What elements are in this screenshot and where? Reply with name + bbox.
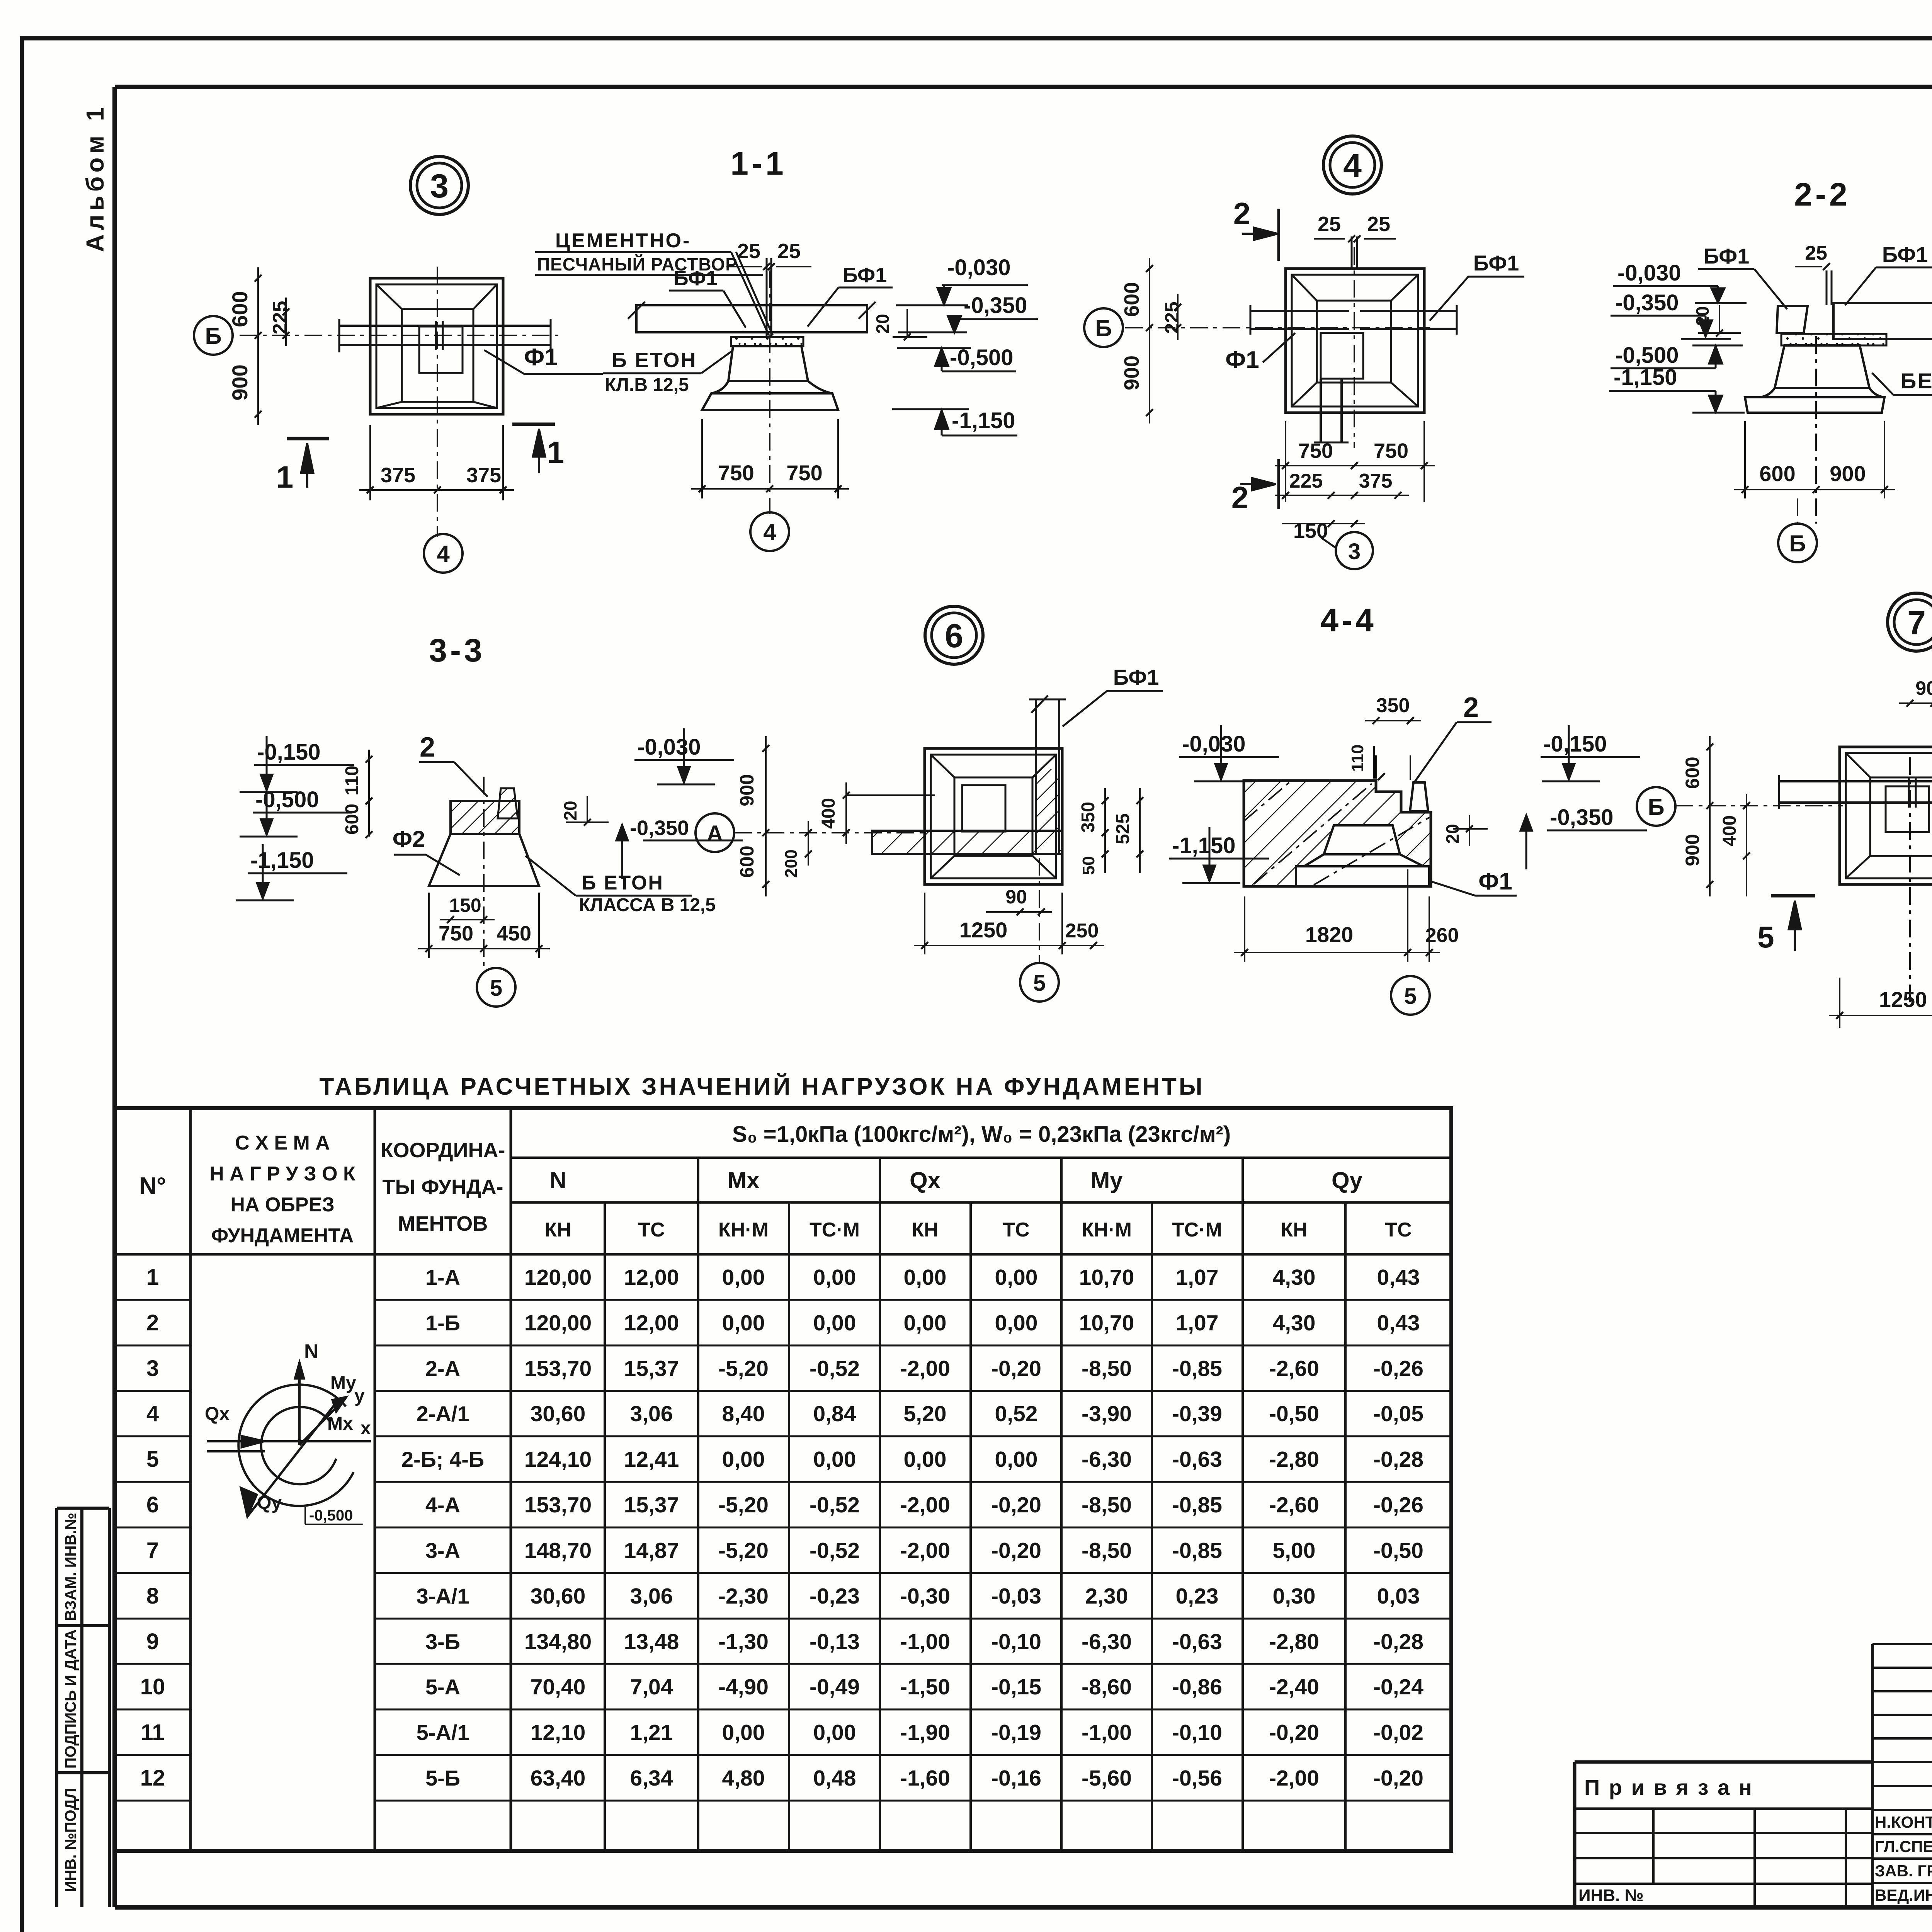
node 7 centerlines	[1675, 805, 1843, 806]
svg-text:0,00: 0,00	[722, 1720, 765, 1745]
svg-text:5,20: 5,20	[904, 1401, 947, 1426]
title block signature grid	[1871, 1644, 1874, 1907]
svg-text:БФ1: БФ1	[1473, 251, 1519, 275]
svg-text:20: 20	[1442, 824, 1463, 844]
svg-text:-5,20: -5,20	[718, 1538, 769, 1563]
svg-text:8,40: 8,40	[722, 1401, 765, 1426]
svg-text:-1,150: -1,150	[250, 848, 314, 873]
node 6 column strip BF1	[1035, 699, 1037, 855]
svg-text:0,43: 0,43	[1377, 1265, 1420, 1290]
svg-text:Ф1: Ф1	[1478, 868, 1512, 895]
svg-text:Б: Б	[205, 323, 221, 349]
node 4 left dims	[1149, 258, 1150, 423]
svg-text:ТС: ТС	[1385, 1219, 1412, 1241]
node 6 left dims	[765, 736, 767, 896]
section 2-2 bottom dim 600 900	[1744, 421, 1746, 498]
svg-text:ТС: ТС	[638, 1219, 665, 1241]
svg-text:600: 600	[1682, 757, 1703, 789]
section 3-3 dims 110 600	[368, 750, 370, 837]
svg-text:-8,50: -8,50	[1082, 1538, 1132, 1563]
section 1-1 mortar strip	[731, 337, 803, 346]
node 4 gap lines 25 25	[1351, 236, 1353, 269]
svg-text:-0,03: -0,03	[991, 1584, 1041, 1609]
svg-text:С Х Е М А: С Х Е М А	[235, 1132, 330, 1154]
svg-text:4: 4	[437, 541, 450, 567]
svg-text:-1,90: -1,90	[900, 1720, 950, 1745]
svg-text:5,00: 5,00	[1273, 1538, 1316, 1563]
svg-text:153,70: 153,70	[524, 1493, 592, 1517]
svg-text:225: 225	[1289, 470, 1323, 492]
svg-text:-0,10: -0,10	[991, 1629, 1041, 1654]
node 4 column socket	[1321, 333, 1363, 379]
svg-text:4: 4	[763, 519, 776, 545]
svg-text:КЛ.В 12,5: КЛ.В 12,5	[605, 375, 689, 395]
svg-text:-5,20: -5,20	[718, 1356, 769, 1381]
section 4-4 dim 350	[1375, 755, 1377, 779]
svg-text:-0,39: -0,39	[1172, 1401, 1222, 1426]
svg-text:-0,350: -0,350	[630, 816, 689, 840]
svg-text:-0,350: -0,350	[1615, 290, 1679, 315]
svg-text:10,70: 10,70	[1079, 1265, 1134, 1290]
node 3 column socket	[419, 327, 463, 373]
svg-text:-0,26: -0,26	[1373, 1493, 1423, 1517]
svg-text:-0,50: -0,50	[1373, 1538, 1423, 1563]
svg-text:0,00: 0,00	[995, 1447, 1038, 1472]
svg-text:2: 2	[1233, 196, 1251, 231]
svg-text:1: 1	[547, 435, 565, 469]
svg-text:Mу: Mу	[1090, 1167, 1123, 1193]
svg-text:15,37: 15,37	[624, 1356, 679, 1381]
svg-text:250: 250	[1065, 920, 1099, 942]
svg-text:N°: N°	[139, 1173, 166, 1199]
section 2-2 axis circle B	[1778, 524, 1817, 562]
svg-text:2,30: 2,30	[1085, 1584, 1128, 1609]
node 4 bottom dims	[1275, 465, 1435, 466]
svg-text:1250: 1250	[1879, 987, 1927, 1012]
node 4 centerlines	[1125, 327, 1430, 328]
svg-text:4: 4	[146, 1401, 159, 1426]
svg-text:4,80: 4,80	[722, 1766, 765, 1791]
svg-text:30,60: 30,60	[531, 1584, 586, 1609]
svg-text:-0,030: -0,030	[637, 735, 701, 760]
svg-text:3-А: 3-А	[425, 1538, 460, 1563]
svg-text:1: 1	[146, 1265, 159, 1290]
svg-text:400: 400	[818, 798, 839, 829]
svg-text:Н А Г Р У З О К: Н А Г Р У З О К	[209, 1163, 355, 1185]
svg-text:х: х	[361, 1418, 371, 1439]
svg-text:-2,00: -2,00	[900, 1538, 950, 1563]
svg-text:25: 25	[1805, 242, 1827, 264]
svg-text:63,40: 63,40	[531, 1766, 586, 1791]
svg-text:S₀ =1,0кПа (100кгс/м²), W₀ = 0: S₀ =1,0кПа (100кгс/м²), W₀ = 0,23кПа (23…	[732, 1122, 1231, 1147]
svg-text:ТС: ТС	[1003, 1219, 1029, 1241]
svg-text:7: 7	[1907, 604, 1926, 641]
node 3 axis circle B	[194, 316, 233, 355]
node 7 socket	[1886, 786, 1929, 832]
svg-text:-1,30: -1,30	[718, 1629, 769, 1654]
svg-text:-0,85: -0,85	[1172, 1538, 1222, 1563]
svg-text:3: 3	[430, 168, 449, 205]
svg-text:ЗАВ. ГР.: ЗАВ. ГР.	[1875, 1862, 1932, 1880]
section 2-2 centerline	[1815, 336, 1817, 524]
svg-text:6: 6	[945, 617, 963, 655]
svg-text:-2,00: -2,00	[1269, 1766, 1319, 1791]
svg-text:ТАБЛИЦА РАСЧЕТНЫХ ЗНАЧЕНИЙ НАГ: ТАБЛИЦА РАСЧЕТНЫХ ЗНАЧЕНИЙ НАГРУЗОК НА Ф…	[319, 1073, 1204, 1100]
svg-text:-0,28: -0,28	[1373, 1447, 1423, 1472]
svg-text:1820: 1820	[1305, 922, 1354, 947]
node 7 axis circle B	[1637, 787, 1675, 826]
node 6 plan square	[925, 748, 1062, 884]
section 4-4 embedded foundation white	[1296, 825, 1429, 886]
svg-text:-0,20: -0,20	[991, 1356, 1041, 1381]
svg-text:КН·М: КН·М	[1082, 1219, 1132, 1241]
svg-text:0,00: 0,00	[995, 1311, 1038, 1335]
node 6 socket	[962, 785, 1005, 832]
svg-text:ФУНДАМЕНТА: ФУНДАМЕНТА	[211, 1225, 354, 1247]
svg-text:-3,90: -3,90	[1082, 1401, 1132, 1426]
node 3 title circle	[410, 156, 468, 214]
node 4 beam strip	[1250, 310, 1349, 312]
svg-text:-0,500: -0,500	[309, 1507, 353, 1524]
svg-text:110: 110	[342, 765, 362, 795]
svg-text:120,00: 120,00	[524, 1265, 592, 1290]
svg-text:0,00: 0,00	[813, 1311, 856, 1335]
node 7 title circle	[1888, 593, 1932, 651]
svg-text:ИНВ. №: ИНВ. №	[1578, 1886, 1644, 1905]
svg-text:-1,00: -1,00	[1082, 1720, 1132, 1745]
svg-text:900: 900	[1120, 355, 1143, 390]
svg-text:5: 5	[490, 976, 502, 1001]
svg-text:-0,52: -0,52	[810, 1538, 860, 1563]
svg-text:0,03: 0,03	[1377, 1584, 1420, 1609]
svg-text:-0,23: -0,23	[810, 1584, 860, 1609]
svg-text:ВЕД.ИНЖ: ВЕД.ИНЖ	[1875, 1886, 1932, 1904]
svg-text:КН: КН	[1281, 1219, 1307, 1241]
svg-text:1: 1	[276, 460, 294, 494]
svg-text:-2,60: -2,60	[1269, 1493, 1319, 1517]
svg-text:-0,56: -0,56	[1172, 1766, 1222, 1791]
svg-text:350: 350	[1376, 694, 1410, 717]
svg-text:153,70: 153,70	[524, 1356, 592, 1381]
svg-text:750: 750	[439, 922, 473, 945]
svg-text:1,07: 1,07	[1176, 1265, 1219, 1290]
svg-text:25: 25	[1367, 213, 1390, 236]
node 3 section mark 1 right	[512, 423, 555, 426]
svg-text:-0,20: -0,20	[991, 1493, 1041, 1517]
svg-text:N: N	[304, 1340, 319, 1363]
section 4-4 monolith block	[1244, 781, 1431, 886]
svg-text:2-Б; 4-Б: 2-Б; 4-Б	[401, 1447, 484, 1471]
svg-text:1,07: 1,07	[1176, 1311, 1219, 1335]
svg-text:0,30: 0,30	[1273, 1584, 1316, 1609]
table header horizontal lines	[511, 1156, 1451, 1159]
svg-text:0,00: 0,00	[813, 1447, 856, 1472]
svg-text:12,00: 12,00	[624, 1265, 679, 1290]
table outer border	[115, 1108, 1451, 1851]
svg-text:-4,90: -4,90	[718, 1675, 769, 1699]
svg-text:ТС·М: ТС·М	[1172, 1219, 1222, 1241]
svg-text:-0,63: -0,63	[1172, 1629, 1222, 1654]
node 7 bottom dim 1250 250	[1839, 978, 1840, 1028]
node 7 section mark 5 left	[1771, 894, 1815, 898]
svg-text:Qу: Qу	[1332, 1167, 1363, 1193]
svg-text:-0,15: -0,15	[991, 1675, 1041, 1699]
svg-text:3: 3	[1348, 539, 1361, 564]
svg-text:-0,24: -0,24	[1373, 1675, 1423, 1699]
svg-text:2-А/1: 2-А/1	[417, 1401, 469, 1426]
svg-text:-0,30: -0,30	[900, 1584, 950, 1609]
svg-text:-1,50: -1,50	[900, 1675, 950, 1699]
svg-text:4-4: 4-4	[1320, 602, 1376, 638]
svg-text:-0,50: -0,50	[1269, 1401, 1319, 1426]
svg-text:2: 2	[420, 732, 435, 763]
svg-text:А: А	[707, 821, 723, 846]
node 7 left dims	[1709, 736, 1711, 896]
svg-text:750: 750	[786, 461, 822, 485]
svg-text:400: 400	[1719, 815, 1740, 846]
svg-text:КОПИРОВАЛ ЗАВЬЯЛОВА: КОПИРОВАЛ ЗАВЬЯЛОВА	[1871, 1930, 1932, 1932]
svg-text:КН·М: КН·М	[718, 1219, 769, 1241]
svg-text:-8,60: -8,60	[1082, 1675, 1132, 1699]
svg-text:Ф1: Ф1	[524, 344, 558, 371]
svg-text:50: 50	[1079, 856, 1098, 875]
svg-text:Mу: Mу	[330, 1373, 356, 1393]
svg-text:350: 350	[1078, 802, 1099, 833]
section 1-1 pedestal	[728, 346, 808, 381]
svg-text:4,30: 4,30	[1273, 1311, 1316, 1335]
svg-text:П р и в я з а н: П р и в я з а н	[1584, 1775, 1753, 1799]
svg-text:1-Б: 1-Б	[425, 1311, 460, 1335]
svg-text:600: 600	[1120, 282, 1143, 317]
svg-text:525: 525	[1113, 813, 1133, 844]
svg-text:0,84: 0,84	[813, 1401, 856, 1426]
section 1-1 beam	[636, 305, 867, 332]
svg-text:0,00: 0,00	[722, 1311, 765, 1335]
svg-text:-0,150: -0,150	[1543, 731, 1607, 757]
svg-text:1250: 1250	[959, 918, 1008, 942]
svg-text:225: 225	[269, 301, 291, 335]
section 4-4 centerline diag	[1254, 784, 1372, 884]
svg-text:НА ОБРЕЗ: НА ОБРЕЗ	[230, 1194, 334, 1216]
svg-text:Qх: Qх	[205, 1404, 230, 1424]
svg-text:-5,20: -5,20	[718, 1493, 769, 1517]
svg-text:-0,030: -0,030	[947, 255, 1010, 280]
section 3-3 cap hatched	[451, 801, 519, 834]
svg-text:-0,030: -0,030	[1617, 260, 1681, 286]
inner frame left edge	[112, 87, 117, 1907]
svg-text:600: 600	[1759, 461, 1795, 486]
svg-text:2: 2	[1231, 480, 1249, 515]
svg-text:90: 90	[1005, 886, 1027, 908]
svg-text:-0,02: -0,02	[1373, 1720, 1423, 1745]
svg-text:10,70: 10,70	[1079, 1311, 1134, 1335]
left stamp column boxes	[55, 1508, 58, 1907]
svg-text:Б ЕТОН: Б ЕТОН	[612, 349, 697, 372]
svg-text:-2,30: -2,30	[718, 1584, 769, 1609]
svg-text:12,10: 12,10	[531, 1720, 586, 1745]
svg-text:Б: Б	[1648, 794, 1664, 820]
svg-text:0,23: 0,23	[1176, 1584, 1219, 1609]
svg-text:Ф1: Ф1	[1225, 347, 1259, 373]
svg-text:0,00: 0,00	[813, 1265, 856, 1290]
svg-text:0,48: 0,48	[813, 1766, 856, 1791]
svg-text:БЕТОН КЛАССА В12,5: БЕТОН КЛАССА В12,5	[1901, 369, 1932, 393]
svg-text:-0,19: -0,19	[991, 1720, 1041, 1745]
svg-text:750: 750	[718, 461, 754, 485]
svg-text:13,48: 13,48	[624, 1629, 679, 1654]
svg-text:3-А/1: 3-А/1	[417, 1584, 469, 1608]
svg-text:120,00: 120,00	[524, 1311, 592, 1335]
svg-text:150: 150	[449, 895, 481, 916]
svg-text:6: 6	[146, 1492, 159, 1517]
svg-text:20: 20	[560, 801, 580, 820]
table column lines	[189, 1108, 192, 1851]
svg-text:-2,60: -2,60	[1269, 1356, 1319, 1381]
svg-text:-2,80: -2,80	[1269, 1629, 1319, 1654]
svg-text:3,06: 3,06	[630, 1584, 673, 1609]
section 3-3 axis circle 5	[477, 968, 515, 1007]
svg-text:900: 900	[736, 774, 758, 806]
node 7 dim 90	[1899, 702, 1932, 704]
svg-text:-0,49: -0,49	[810, 1675, 860, 1699]
section 3-3 body trapezoid F2	[429, 834, 539, 886]
svg-text:375: 375	[381, 464, 415, 487]
svg-text:4,30: 4,30	[1273, 1265, 1316, 1290]
svg-text:124,10: 124,10	[524, 1447, 592, 1472]
svg-text:ТС·М: ТС·М	[810, 1219, 860, 1241]
svg-text:-1,150: -1,150	[1614, 365, 1677, 390]
svg-text:3: 3	[146, 1356, 159, 1381]
svg-text:5-А: 5-А	[425, 1675, 460, 1699]
svg-text:200: 200	[782, 849, 801, 878]
svg-text:ТЫ ФУНДА-: ТЫ ФУНДА-	[383, 1175, 503, 1199]
svg-text:134,80: 134,80	[524, 1629, 592, 1654]
svg-text:Mх: Mх	[327, 1413, 353, 1434]
svg-text:БФ1: БФ1	[1113, 665, 1159, 689]
svg-text:Mх: Mх	[727, 1167, 759, 1193]
svg-text:900: 900	[228, 364, 252, 400]
svg-text:МЕНТОВ: МЕНТОВ	[398, 1212, 488, 1235]
svg-text:-0,10: -0,10	[1172, 1720, 1222, 1745]
node 3 axis circle 4 bottom	[424, 534, 463, 573]
node 7 beam strip	[1779, 780, 1932, 782]
node 6 axis circle A	[696, 813, 734, 852]
svg-text:12,41: 12,41	[624, 1447, 679, 1472]
svg-text:ПОДПИСЬ И ДАТА: ПОДПИСЬ И ДАТА	[62, 1629, 79, 1769]
svg-text:-0,030: -0,030	[1182, 731, 1245, 757]
svg-text:ВЗАМ. ИНВ.№: ВЗАМ. ИНВ.№	[62, 1513, 79, 1621]
svg-text:8: 8	[146, 1583, 159, 1609]
svg-text:КН: КН	[912, 1219, 938, 1241]
section 4-4 column stub	[1410, 782, 1428, 811]
svg-text:375: 375	[466, 464, 501, 487]
svg-text:2: 2	[146, 1310, 159, 1335]
svg-text:-1,60: -1,60	[900, 1766, 950, 1791]
svg-text:15,37: 15,37	[624, 1493, 679, 1517]
svg-text:0,00: 0,00	[722, 1265, 765, 1290]
svg-text:БФ1: БФ1	[1704, 244, 1749, 268]
svg-text:375: 375	[1359, 470, 1393, 492]
svg-text:-0,05: -0,05	[1373, 1401, 1423, 1426]
node 4 axis circle 3 bottom	[1336, 532, 1373, 569]
node 3 plan square F1	[370, 278, 503, 414]
svg-text:-0,85: -0,85	[1172, 1356, 1222, 1381]
svg-text:-0,16: -0,16	[991, 1766, 1041, 1791]
table load-scheme diagram	[238, 1384, 354, 1506]
svg-text:20: 20	[872, 314, 893, 333]
node 7 plan square	[1840, 747, 1932, 884]
section 2-2 mortar strip	[1781, 334, 1886, 345]
svg-text:-0,500: -0,500	[255, 787, 319, 812]
svg-text:-2,80: -2,80	[1269, 1447, 1319, 1472]
svg-text:3-Б: 3-Б	[425, 1629, 460, 1654]
node 3 section mark 1 left	[287, 437, 329, 440]
svg-text:9: 9	[146, 1629, 159, 1654]
svg-text:5: 5	[1033, 971, 1046, 996]
svg-text:12,00: 12,00	[624, 1311, 679, 1335]
svg-text:7,04: 7,04	[630, 1675, 673, 1699]
node 4 column strip below	[1320, 379, 1322, 442]
section 4-4 axis circle 5	[1391, 976, 1430, 1015]
privyazan box	[1575, 1760, 1872, 1764]
svg-text:2: 2	[1463, 692, 1479, 723]
section 2-2 pedestal	[1775, 345, 1869, 388]
svg-text:225: 225	[1161, 301, 1183, 333]
svg-text:0,43: 0,43	[1377, 1311, 1420, 1335]
svg-text:-0,26: -0,26	[1373, 1356, 1423, 1381]
svg-text:у: у	[354, 1386, 365, 1406]
svg-text:450: 450	[497, 922, 531, 945]
svg-text:Qу: Qу	[257, 1493, 282, 1513]
svg-text:10: 10	[140, 1674, 165, 1699]
node 6 title circle	[925, 606, 983, 664]
svg-text:1,21: 1,21	[630, 1720, 673, 1745]
node 6 axis circle 5	[1020, 963, 1059, 1002]
svg-text:3,06: 3,06	[630, 1401, 673, 1426]
node 6 horizontal strip	[872, 831, 1062, 854]
svg-text:0,00: 0,00	[904, 1265, 947, 1290]
svg-text:Н.КОНТР: Н.КОНТР	[1875, 1813, 1932, 1831]
svg-text:900: 900	[1682, 834, 1703, 866]
inner frame bottom edge	[115, 1905, 1932, 1910]
svg-text:-1,00: -1,00	[900, 1629, 950, 1654]
svg-text:-0,500: -0,500	[1615, 343, 1679, 368]
svg-text:ИНВ. №ПОДЛ: ИНВ. №ПОДЛ	[62, 1788, 79, 1892]
svg-text:ГЛ.СПЕЦ: ГЛ.СПЕЦ	[1875, 1837, 1932, 1855]
node 6 bottom dims	[986, 911, 1052, 913]
inner frame top edge	[115, 85, 1932, 89]
section 1-1 centerline	[769, 270, 770, 514]
section 2-2 left column stub	[1777, 306, 1808, 333]
svg-text:70,40: 70,40	[531, 1675, 586, 1699]
svg-text:30,60: 30,60	[531, 1401, 586, 1426]
section 4-4 bottom dim 1820 260	[1244, 896, 1245, 962]
svg-text:-0,20: -0,20	[1269, 1720, 1319, 1745]
svg-text:N: N	[549, 1167, 566, 1193]
section 1-1 bottom dim 750 750	[701, 419, 703, 498]
svg-text:-0,52: -0,52	[810, 1356, 860, 1381]
svg-text:-6,30: -6,30	[1082, 1447, 1132, 1472]
svg-text:-0,13: -0,13	[810, 1629, 860, 1654]
svg-text:-0,85: -0,85	[1172, 1493, 1222, 1517]
section 3-3 column stub	[498, 788, 518, 818]
svg-text:Альбом 1: Альбом 1	[81, 104, 109, 252]
svg-text:3-3: 3-3	[429, 632, 485, 668]
svg-text:2-2: 2-2	[1794, 176, 1850, 213]
svg-text:-0,350: -0,350	[964, 293, 1027, 318]
svg-text:5: 5	[1404, 984, 1417, 1009]
svg-text:-0,20: -0,20	[1373, 1766, 1423, 1791]
